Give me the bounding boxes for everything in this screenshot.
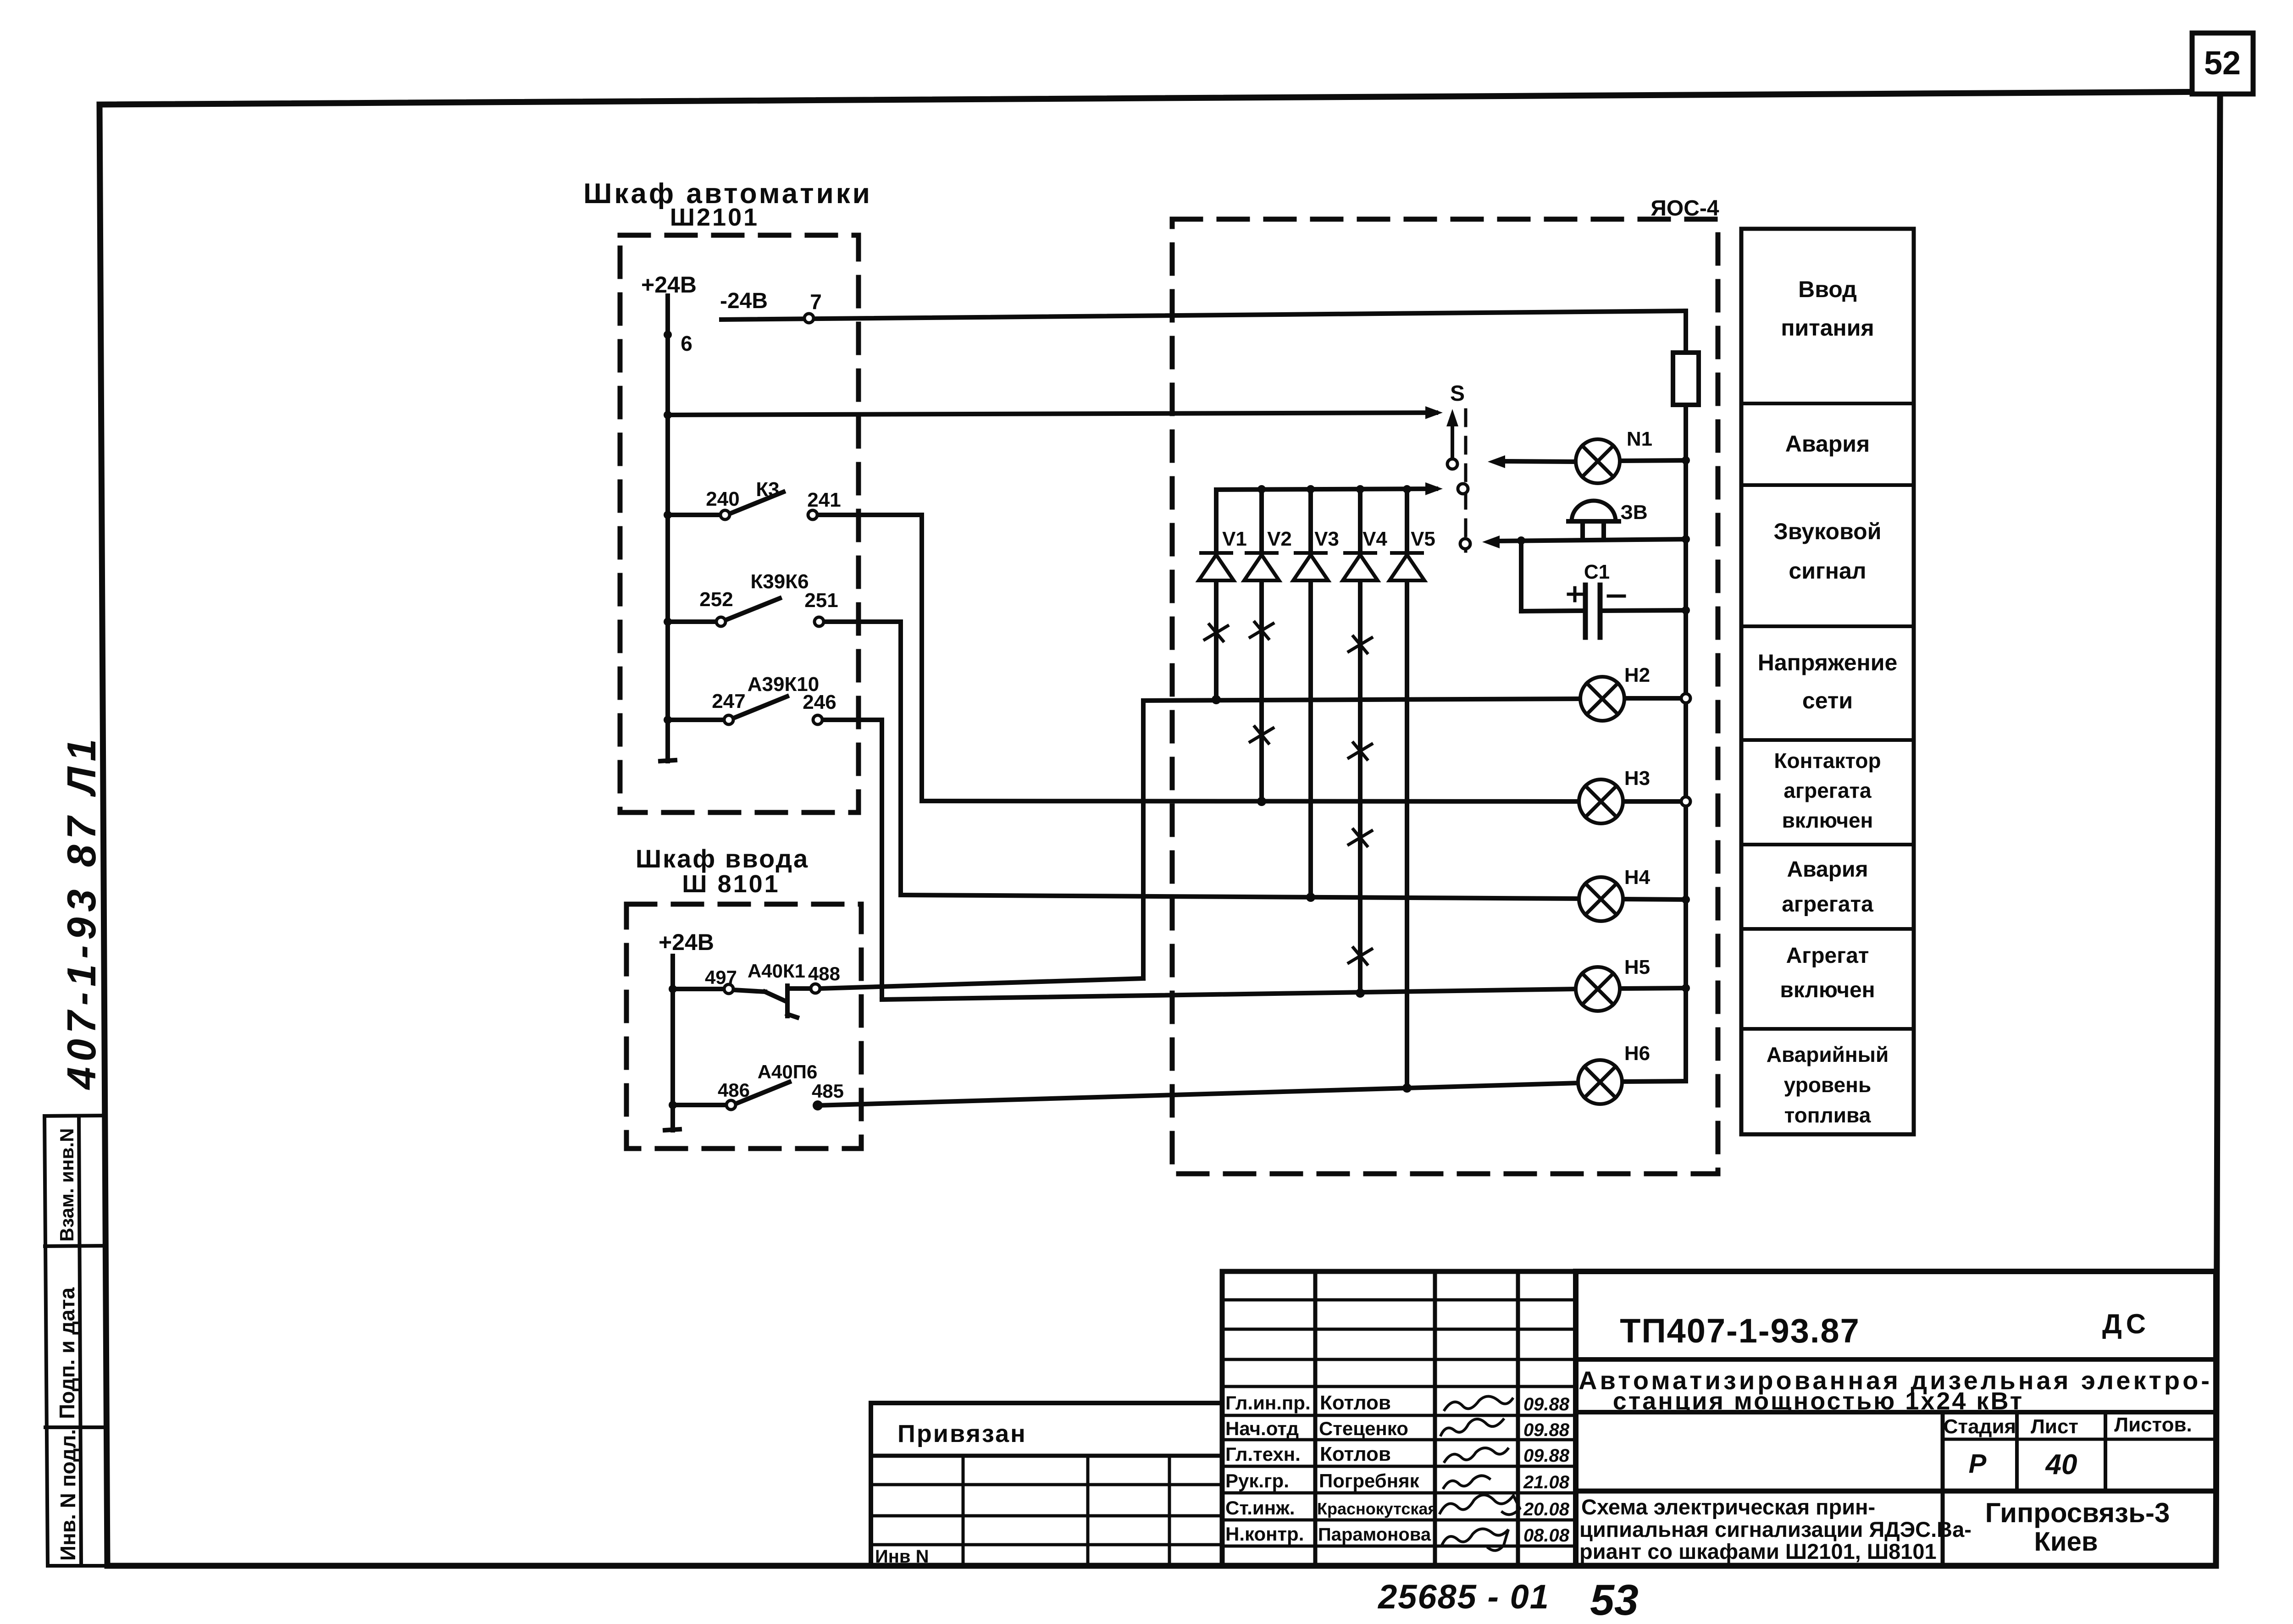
svg-text:Киев: Киев	[2034, 1527, 2098, 1557]
svg-text:Н2: Н2	[1624, 664, 1650, 686]
svg-text:V1: V1	[1222, 528, 1247, 550]
svg-text:53: 53	[1590, 1576, 1639, 1624]
svg-text:09.88: 09.88	[1523, 1446, 1570, 1466]
svg-text:Авария: Авария	[1785, 431, 1870, 457]
svg-text:Краснокутская: Краснокутская	[1317, 1499, 1437, 1518]
svg-text:К39К6: К39К6	[750, 570, 809, 593]
svg-text:А40П6: А40П6	[758, 1061, 818, 1083]
svg-text:V5: V5	[1411, 528, 1435, 550]
svg-text:ДС: ДС	[2102, 1309, 2150, 1339]
svg-text:Стадия: Стадия	[1944, 1415, 2016, 1438]
svg-text:V3: V3	[1314, 528, 1339, 550]
svg-text:252: 252	[699, 588, 733, 611]
svg-text:Звуковой: Звуковой	[1774, 519, 1882, 544]
svg-text:+24В: +24В	[659, 929, 714, 955]
svg-text:ТП407-1-93.87: ТП407-1-93.87	[1620, 1312, 1860, 1350]
svg-text:включен: включен	[1782, 808, 1873, 832]
svg-text:Нач.отд: Нач.отд	[1225, 1418, 1299, 1439]
svg-text:Котлов: Котлов	[1320, 1392, 1391, 1414]
svg-text:Взам. инв.N: Взам. инв.N	[56, 1128, 78, 1242]
svg-text:уровень: уровень	[1784, 1073, 1872, 1097]
svg-text:ЗВ: ЗВ	[1620, 501, 1647, 524]
svg-text:240: 240	[706, 488, 739, 510]
svg-text:Шкаф ввода: Шкаф ввода	[636, 844, 809, 873]
svg-text:V2: V2	[1267, 528, 1292, 550]
svg-text:А40К1: А40К1	[748, 960, 805, 982]
svg-text:Инв. N подл.: Инв. N подл.	[56, 1429, 80, 1561]
svg-text:К3: К3	[756, 478, 779, 501]
svg-text:Ст.инж.: Ст.инж.	[1225, 1497, 1295, 1519]
svg-text:Агрегат: Агрегат	[1786, 944, 1869, 968]
svg-text:топлива: топлива	[1784, 1103, 1871, 1127]
svg-text:486: 486	[718, 1079, 750, 1101]
svg-text:Инв N: Инв N	[875, 1547, 929, 1567]
svg-text:Листов.: Листов.	[2114, 1414, 2192, 1436]
svg-text:Аварийный: Аварийный	[1767, 1043, 1889, 1066]
svg-text:Гл.техн.: Гл.техн.	[1225, 1443, 1301, 1465]
svg-text:ципиальная сигнализации ЯДЭС.В: ципиальная сигнализации ЯДЭС.Ва-	[1579, 1517, 1972, 1541]
svg-text:Напряжение: Напряжение	[1758, 650, 1898, 675]
svg-text:агрегата: агрегата	[1783, 779, 1872, 802]
svg-text:20.08: 20.08	[1523, 1499, 1570, 1519]
svg-text:241: 241	[807, 489, 841, 511]
svg-text:6: 6	[681, 331, 692, 355]
svg-text:Схема электрическая прин-: Схема электрическая прин-	[1581, 1495, 1875, 1519]
svg-text:Погребняк: Погребняк	[1319, 1470, 1420, 1491]
svg-text:40: 40	[2045, 1449, 2077, 1480]
svg-text:09.88: 09.88	[1523, 1420, 1570, 1440]
svg-text:Н4: Н4	[1624, 866, 1651, 889]
svg-text:-24В: -24В	[720, 289, 768, 313]
svg-text:Ш 8101: Ш 8101	[682, 870, 780, 898]
svg-text:488: 488	[808, 963, 840, 984]
svg-text:09.88: 09.88	[1523, 1394, 1570, 1414]
svg-text:С1: С1	[1584, 561, 1610, 583]
svg-text:S: S	[1450, 381, 1465, 406]
svg-text:52: 52	[2204, 45, 2241, 82]
svg-text:агрегата: агрегата	[1782, 892, 1873, 917]
svg-text:25685 - 01: 25685 - 01	[1377, 1578, 1550, 1616]
svg-text:Р: Р	[1969, 1449, 1987, 1479]
svg-text:Гипросвязь-3: Гипросвязь-3	[1985, 1497, 2170, 1528]
svg-text:+24В: +24В	[641, 272, 697, 298]
svg-text:251: 251	[804, 589, 838, 612]
svg-text:Гл.ин.пр.: Гл.ин.пр.	[1225, 1392, 1311, 1414]
svg-text:включен: включен	[1780, 978, 1875, 1002]
svg-text:Н3: Н3	[1624, 767, 1650, 790]
svg-text:Ш2101: Ш2101	[670, 204, 759, 231]
svg-text:Привязан: Привязан	[897, 1420, 1027, 1447]
svg-text:станция мощностью 1х24 кВт: станция мощностью 1х24 кВт	[1613, 1387, 2024, 1415]
svg-text:7: 7	[810, 290, 822, 314]
svg-text:Авария: Авария	[1787, 857, 1868, 882]
svg-text:Котлов: Котлов	[1320, 1443, 1391, 1465]
svg-text:ЯОС-4: ЯОС-4	[1651, 196, 1719, 221]
svg-text:Рук.гр.: Рук.гр.	[1225, 1470, 1289, 1491]
svg-text:питания: питания	[1781, 315, 1874, 341]
svg-text:497: 497	[705, 967, 737, 988]
svg-text:V4: V4	[1363, 528, 1387, 550]
svg-text:Контактор: Контактор	[1774, 749, 1881, 773]
svg-text:485: 485	[812, 1080, 844, 1102]
svg-text:сигнал: сигнал	[1789, 558, 1866, 584]
svg-text:Ввод: Ввод	[1798, 276, 1857, 302]
svg-text:247: 247	[712, 690, 745, 713]
svg-text:сети: сети	[1802, 688, 1853, 713]
svg-text:246: 246	[803, 691, 836, 713]
svg-text:407-1-93 87 Л1: 407-1-93 87 Л1	[59, 734, 104, 1090]
svg-text:Н.контр.: Н.контр.	[1225, 1523, 1304, 1545]
svg-text:Лист: Лист	[2031, 1415, 2078, 1438]
svg-text:Парамонова: Парамонова	[1318, 1525, 1431, 1545]
svg-text:риант со шкафами Ш2101, Ш8101: риант со шкафами Ш2101, Ш8101	[1579, 1539, 1937, 1563]
svg-text:Н6: Н6	[1624, 1042, 1650, 1065]
svg-text:08.08: 08.08	[1523, 1525, 1570, 1546]
svg-text:Стеценко: Стеценко	[1319, 1418, 1408, 1439]
svg-text:Подп. и дата: Подп. и дата	[55, 1287, 79, 1419]
svg-text:21.08: 21.08	[1523, 1472, 1570, 1492]
svg-text:Н5: Н5	[1624, 956, 1650, 978]
svg-text:N1: N1	[1627, 428, 1652, 450]
